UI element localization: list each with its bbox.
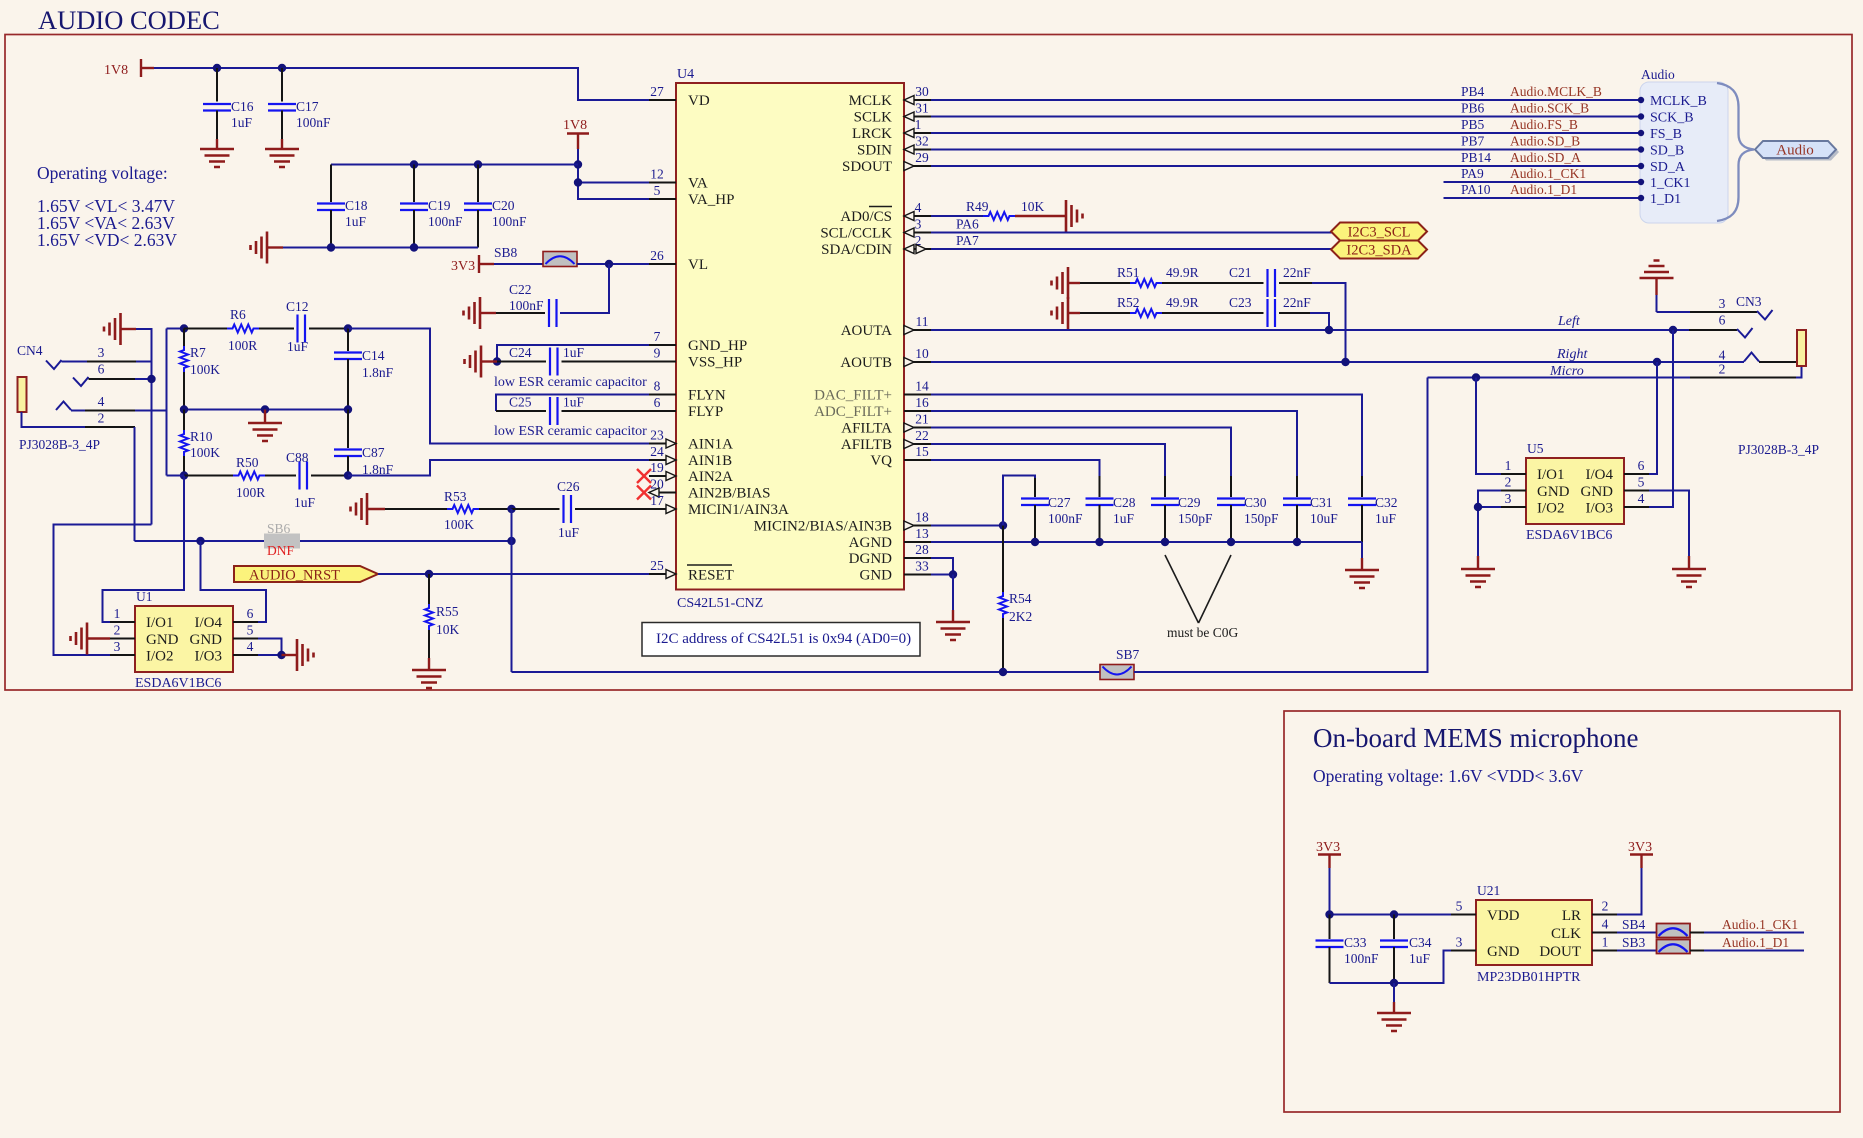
junction bbox=[574, 160, 582, 168]
junction bbox=[999, 521, 1007, 529]
svg-text:Audio.SD_A: Audio.SD_A bbox=[1510, 150, 1581, 165]
junction bbox=[344, 471, 352, 479]
svg-text:I/O2: I/O2 bbox=[146, 649, 174, 665]
wire SCL (PA6) bbox=[931, 232, 1332, 234]
svg-text:1: 1 bbox=[114, 606, 121, 621]
svg-text:100nF: 100nF bbox=[492, 214, 527, 229]
svg-text:1_D1: 1_D1 bbox=[1650, 192, 1681, 207]
svg-text:3V3: 3V3 bbox=[1628, 840, 1652, 855]
svg-text:RESET: RESET bbox=[688, 568, 734, 584]
junction bbox=[1390, 979, 1398, 987]
svg-text:GND: GND bbox=[1581, 484, 1614, 500]
svg-text:2: 2 bbox=[1602, 899, 1609, 914]
svg-text:I/O3: I/O3 bbox=[1586, 501, 1614, 517]
port AUDIO_NRST bbox=[234, 566, 378, 584]
wire U5 pin1 to Micro bbox=[1476, 378, 1501, 475]
svg-text:GND_HP: GND_HP bbox=[688, 338, 747, 354]
wire MCLK (PB4) bbox=[931, 99, 1640, 101]
junction bbox=[1390, 910, 1398, 918]
svg-text:19: 19 bbox=[650, 460, 664, 475]
svg-text:1.65V <VD< 2.63V: 1.65V <VD< 2.63V bbox=[37, 230, 177, 250]
wire R7/R10 node row bbox=[184, 409, 348, 411]
junction bbox=[1653, 358, 1661, 366]
svg-text:SDIN: SDIN bbox=[857, 143, 892, 159]
svg-text:4: 4 bbox=[247, 639, 254, 654]
ground (U5 right) bbox=[1672, 556, 1706, 587]
svg-text:AIN2B/BIAS: AIN2B/BIAS bbox=[688, 486, 771, 502]
junction bbox=[213, 64, 221, 72]
svg-text:GND: GND bbox=[190, 632, 223, 648]
svg-text:100nF: 100nF bbox=[296, 115, 331, 130]
wire U5 pin6 to Right bbox=[1649, 362, 1657, 474]
junction bbox=[507, 505, 515, 513]
svg-text:R54: R54 bbox=[1009, 591, 1032, 606]
wire U5 pin2/pin3 to ground bbox=[1478, 491, 1501, 557]
svg-text:Audio: Audio bbox=[1776, 143, 1814, 159]
svg-text:11: 11 bbox=[916, 314, 929, 329]
junction bbox=[574, 178, 582, 186]
svg-text:U4: U4 bbox=[677, 67, 694, 82]
jack plug symbol bbox=[18, 377, 27, 412]
wire GND rail bbox=[1330, 951, 1452, 984]
svg-text:GND: GND bbox=[860, 568, 893, 584]
svg-text:C25: C25 bbox=[509, 395, 532, 410]
capacitor C87 bbox=[334, 410, 394, 478]
capacitor C27 bbox=[1021, 478, 1083, 542]
capacitor C24 bbox=[497, 345, 649, 376]
junction bbox=[1095, 538, 1103, 546]
capacitor C25 bbox=[496, 395, 649, 426]
svg-text:VD: VD bbox=[688, 93, 710, 109]
svg-text:PA6: PA6 bbox=[956, 217, 979, 232]
svg-text:VQ: VQ bbox=[870, 453, 892, 469]
wire SDIN (PB7) bbox=[931, 149, 1640, 151]
pin 1 bbox=[110, 621, 135, 623]
pin 2 wire from plug bbox=[22, 412, 86, 427]
svg-text:U5: U5 bbox=[1527, 441, 1544, 456]
solder bridge SB6 (DNF) bbox=[264, 521, 300, 558]
svg-text:R6: R6 bbox=[230, 307, 246, 322]
svg-text:I/O2: I/O2 bbox=[1537, 501, 1565, 517]
resistor R7 bbox=[180, 329, 220, 410]
svg-text:2: 2 bbox=[1505, 475, 1512, 490]
svg-text:16: 16 bbox=[915, 395, 929, 410]
ground (R53, sideways) bbox=[351, 493, 386, 525]
svg-text:5: 5 bbox=[654, 183, 661, 198]
svg-text:SCLK: SCLK bbox=[854, 110, 893, 126]
svg-text:C23: C23 bbox=[1229, 295, 1252, 310]
capacitor C17 bbox=[268, 68, 331, 139]
svg-text:100R: 100R bbox=[228, 338, 257, 353]
svg-text:Operating voltage: 1.6V <VDD<: Operating voltage: 1.6V <VDD< 3.6V bbox=[1313, 766, 1584, 786]
wire AIN1B to pin 24 bbox=[348, 460, 649, 476]
svg-text:6: 6 bbox=[654, 395, 661, 410]
pin 4 bbox=[233, 654, 258, 656]
junction bbox=[147, 375, 155, 383]
svg-text:LR: LR bbox=[1562, 908, 1581, 924]
wire VL pin 26 bbox=[577, 263, 649, 265]
wire SB6 to MICIN1 node bbox=[300, 540, 512, 542]
wire LRCK (PB5) bbox=[931, 132, 1640, 134]
svg-text:DGND: DGND bbox=[849, 551, 892, 567]
ground (MEMS) bbox=[1377, 1002, 1411, 1031]
svg-text:2: 2 bbox=[114, 623, 121, 638]
svg-text:PA10: PA10 bbox=[1461, 182, 1491, 197]
svg-text:1: 1 bbox=[1602, 935, 1609, 950]
junction bbox=[196, 537, 204, 545]
connector CN3 audio jack bbox=[1657, 294, 1820, 457]
svg-text:2: 2 bbox=[1719, 362, 1726, 377]
port I2C3_SDA bbox=[1331, 241, 1427, 259]
svg-text:150pF: 150pF bbox=[1178, 511, 1213, 526]
junction bbox=[1031, 538, 1039, 546]
svg-text:4: 4 bbox=[1638, 491, 1645, 506]
svg-text:VA_HP: VA_HP bbox=[688, 192, 734, 208]
svg-text:12: 12 bbox=[650, 167, 664, 182]
svg-text:R51: R51 bbox=[1117, 265, 1140, 280]
svg-text:100nF: 100nF bbox=[428, 214, 463, 229]
pin 3 bbox=[1657, 311, 1691, 313]
svg-text:100nF: 100nF bbox=[1344, 951, 1379, 966]
wire U1 I/O4 riser bbox=[201, 541, 267, 622]
svg-text:R49: R49 bbox=[966, 199, 989, 214]
ground (AGND) bbox=[1345, 558, 1379, 588]
svg-text:AIN1B: AIN1B bbox=[688, 453, 732, 469]
svg-text:3: 3 bbox=[915, 217, 922, 232]
junction bbox=[1227, 538, 1235, 546]
svg-text:AUDIO CODEC: AUDIO CODEC bbox=[38, 5, 220, 35]
svg-text:5: 5 bbox=[1456, 899, 1463, 914]
svg-text:C30: C30 bbox=[1244, 495, 1267, 510]
wire GND pin 33 bbox=[931, 574, 953, 576]
ground (CN3, flipped) bbox=[1640, 261, 1674, 313]
svg-text:PA9: PA9 bbox=[1461, 166, 1484, 181]
svg-text:C19: C19 bbox=[428, 198, 451, 213]
U4 left pin names bbox=[687, 93, 789, 584]
svg-text:SD_A: SD_A bbox=[1650, 160, 1686, 175]
resistor R55 bbox=[425, 574, 460, 658]
wire 1V8 to VA pins bbox=[577, 149, 579, 183]
svg-text:100K: 100K bbox=[190, 362, 220, 377]
junction bbox=[493, 357, 501, 365]
svg-text:1uF: 1uF bbox=[1113, 511, 1135, 526]
svg-text:low ESR ceramic capacitor: low ESR ceramic capacitor bbox=[494, 424, 647, 439]
no-connect X pin 20 bbox=[637, 486, 651, 500]
U4 left pin stubs and numbers bbox=[649, 84, 676, 579]
junction bbox=[949, 570, 957, 578]
MEMS microphone section border bbox=[1284, 711, 1840, 1112]
svg-text:C87: C87 bbox=[362, 445, 385, 460]
svg-text:Right: Right bbox=[1556, 347, 1588, 362]
svg-text:Audio.MCLK_B: Audio.MCLK_B bbox=[1510, 84, 1602, 99]
junction bbox=[180, 405, 188, 413]
svg-text:LRCK: LRCK bbox=[852, 126, 892, 142]
wire to ground bbox=[1393, 983, 1395, 1002]
svg-text:PB14: PB14 bbox=[1461, 150, 1491, 165]
svg-text:7: 7 bbox=[654, 329, 661, 344]
svg-text:Left: Left bbox=[1557, 314, 1581, 329]
svg-text:R50: R50 bbox=[236, 455, 259, 470]
svg-text:AIN2A: AIN2A bbox=[688, 469, 733, 485]
resistor R52 bbox=[1080, 295, 1264, 317]
svg-text:GND: GND bbox=[146, 632, 179, 648]
wire AGND to ground bbox=[1361, 542, 1363, 558]
svg-text:Audio.1_D1: Audio.1_D1 bbox=[1722, 935, 1789, 950]
wire AFILTA to C30 bbox=[931, 428, 1231, 477]
pin 6 bbox=[233, 621, 258, 623]
wire Micro row bbox=[1428, 377, 1691, 379]
svg-text:R53: R53 bbox=[444, 489, 467, 504]
svg-text:1uF: 1uF bbox=[563, 345, 585, 360]
svg-text:I2C3_SCL: I2C3_SCL bbox=[1348, 225, 1411, 241]
wire Micro tip / SB6 row bbox=[135, 540, 265, 542]
svg-text:MCLK_B: MCLK_B bbox=[1650, 94, 1707, 109]
svg-text:ADC_FILT+: ADC_FILT+ bbox=[814, 404, 892, 420]
svg-text:SB8: SB8 bbox=[494, 245, 518, 260]
wire AIN1B net to U1 I/O1 bbox=[103, 476, 185, 623]
resistor R53 bbox=[385, 489, 512, 532]
wire 1_CK1 (PA9) bbox=[1444, 181, 1641, 183]
ground (C22, sideways) bbox=[464, 297, 497, 329]
power port 3V3 (VL) bbox=[451, 255, 494, 274]
svg-text:AOUTA: AOUTA bbox=[841, 323, 892, 339]
ground (C16) bbox=[200, 139, 234, 167]
wire FLYN pin 8 loop bbox=[496, 395, 649, 412]
wire CLK out bbox=[1690, 932, 1704, 934]
wire AUDIO_NRST to pin 25 bbox=[378, 573, 649, 575]
svg-text:C27: C27 bbox=[1048, 495, 1071, 510]
svg-text:GND: GND bbox=[1537, 484, 1570, 500]
pin 3 contact bbox=[46, 360, 62, 369]
svg-text:30: 30 bbox=[915, 84, 929, 99]
resistor R49 bbox=[931, 199, 1045, 220]
svg-text:8: 8 bbox=[654, 379, 661, 394]
wire GND_HP pin 7 loop bbox=[497, 345, 649, 362]
svg-text:100nF: 100nF bbox=[1048, 511, 1083, 526]
svg-text:3: 3 bbox=[114, 639, 121, 654]
svg-text:AFILTB: AFILTB bbox=[841, 437, 892, 453]
svg-text:PB4: PB4 bbox=[1461, 84, 1485, 99]
ground (VA rail, sideways) bbox=[251, 232, 284, 264]
junction bbox=[425, 570, 433, 578]
svg-text:49.9R: 49.9R bbox=[1166, 295, 1199, 310]
wire 1_D1 (PA10) bbox=[1444, 197, 1641, 199]
wire MICIN2 pin 18 bbox=[931, 525, 1003, 527]
svg-text:CN4: CN4 bbox=[17, 343, 43, 358]
svg-text:1_CK1: 1_CK1 bbox=[1650, 176, 1690, 191]
wire micro bottom run bbox=[512, 671, 1101, 673]
junction bbox=[1161, 538, 1169, 546]
junction bbox=[1669, 326, 1677, 334]
svg-text:C32: C32 bbox=[1375, 495, 1398, 510]
junction bbox=[344, 324, 352, 332]
svg-text:SB3: SB3 bbox=[1622, 935, 1646, 950]
svg-text:32: 32 bbox=[915, 134, 929, 149]
svg-text:FS_B: FS_B bbox=[1650, 127, 1682, 142]
svg-text:22nF: 22nF bbox=[1283, 265, 1311, 280]
svg-text:1uF: 1uF bbox=[558, 525, 580, 540]
connector CN4 audio jack bbox=[17, 343, 167, 452]
U4 right pin stubs and numbers bbox=[904, 84, 931, 575]
note must be C0G bbox=[1165, 555, 1239, 640]
resistor R54 bbox=[999, 526, 1032, 673]
svg-text:VDD: VDD bbox=[1487, 908, 1520, 924]
svg-text:49.9R: 49.9R bbox=[1166, 265, 1199, 280]
pin 6 contact bbox=[73, 377, 89, 386]
wire VA decoupling rail bbox=[331, 164, 578, 166]
svg-text:15: 15 bbox=[915, 444, 929, 459]
power port 3V3 (U21 LR) bbox=[1617, 840, 1653, 915]
svg-text:low ESR ceramic capacitor: low ESR ceramic capacitor bbox=[494, 375, 647, 390]
junction bbox=[999, 668, 1007, 676]
svg-text:4: 4 bbox=[1719, 348, 1726, 363]
power port 3V3 (C33) bbox=[1316, 840, 1341, 915]
svg-text:C88: C88 bbox=[286, 450, 309, 465]
ground (U1 pin2, sideways) bbox=[71, 623, 111, 655]
svg-text:3: 3 bbox=[1456, 935, 1463, 950]
svg-text:SB4: SB4 bbox=[1622, 917, 1646, 932]
svg-text:PB6: PB6 bbox=[1461, 101, 1485, 116]
IC U4 CS42L51-CNZ bbox=[676, 67, 904, 611]
svg-text:CLK: CLK bbox=[1551, 926, 1581, 942]
svg-text:Audio.FS_B: Audio.FS_B bbox=[1510, 117, 1578, 132]
svg-text:AD0/CS: AD0/CS bbox=[840, 209, 892, 225]
pin 5 bbox=[233, 638, 258, 640]
svg-text:1uF: 1uF bbox=[563, 395, 585, 410]
svg-text:1: 1 bbox=[1505, 458, 1512, 473]
wire VDD rail bbox=[1330, 914, 1452, 916]
plug bbox=[1797, 330, 1806, 366]
svg-text:9: 9 bbox=[654, 346, 661, 361]
capacitor C16 bbox=[203, 68, 254, 139]
junction bbox=[1325, 910, 1333, 918]
junction bbox=[180, 471, 188, 479]
capacitor C31 bbox=[1283, 476, 1338, 542]
resistor R50 bbox=[167, 455, 297, 500]
ground (CN4 sleeve, sideways) bbox=[104, 313, 136, 345]
ground (C24, sideways) bbox=[465, 346, 498, 378]
capacitor C33 bbox=[1316, 915, 1380, 984]
ground (DGND) bbox=[936, 610, 970, 640]
capacitor C21 bbox=[1229, 265, 1312, 297]
svg-text:10: 10 bbox=[915, 346, 929, 361]
ground (U1 pin4, sideways right) bbox=[282, 639, 314, 671]
svg-text:Audio: Audio bbox=[1641, 67, 1675, 82]
svg-text:C18: C18 bbox=[345, 198, 368, 213]
svg-text:VL: VL bbox=[688, 257, 708, 273]
svg-text:C20: C20 bbox=[492, 198, 515, 213]
svg-text:10K: 10K bbox=[436, 622, 460, 637]
port Audio bbox=[1755, 141, 1839, 161]
svg-text:U1: U1 bbox=[136, 589, 153, 604]
solder bridge SB3 bbox=[1617, 935, 1690, 954]
capacitor C14 bbox=[334, 329, 394, 410]
capacitor C30 bbox=[1217, 476, 1279, 542]
svg-text:R52: R52 bbox=[1117, 295, 1140, 310]
ground (C17) bbox=[265, 139, 299, 167]
svg-text:C12: C12 bbox=[286, 299, 309, 314]
svg-text:AOUTB: AOUTB bbox=[840, 355, 892, 371]
svg-text:MICIN2/BIAS/AIN3B: MICIN2/BIAS/AIN3B bbox=[754, 519, 892, 535]
svg-text:3V3: 3V3 bbox=[1316, 840, 1340, 855]
wire MICIN1 node riser bbox=[511, 509, 513, 672]
svg-text:3V3: 3V3 bbox=[451, 259, 475, 274]
svg-text:3: 3 bbox=[98, 345, 105, 360]
junction bbox=[410, 243, 418, 251]
svg-text:C29: C29 bbox=[1178, 495, 1201, 510]
svg-text:5: 5 bbox=[1638, 475, 1645, 490]
power port I2C3_SCL bbox=[1331, 223, 1427, 241]
junction bbox=[278, 64, 286, 72]
wire VL to C22 bbox=[560, 264, 609, 313]
svg-text:6: 6 bbox=[247, 606, 254, 621]
svg-text:21: 21 bbox=[915, 412, 929, 427]
svg-text:must be C0G: must be C0G bbox=[1167, 625, 1239, 640]
capacitor C34 bbox=[1380, 915, 1432, 984]
wire CN4 pin2 riser bbox=[134, 427, 136, 541]
svg-text:10uF: 10uF bbox=[1310, 511, 1338, 526]
capacitor C28 bbox=[1086, 476, 1136, 542]
junction bbox=[1474, 503, 1482, 511]
solder bridge SB8 bbox=[494, 245, 577, 267]
svg-text:C16: C16 bbox=[231, 99, 254, 114]
ground (U5 left) bbox=[1461, 556, 1495, 587]
wire AOUTB (Right) bbox=[931, 361, 1744, 363]
svg-text:AUDIO_NRST: AUDIO_NRST bbox=[249, 568, 340, 584]
svg-text:4: 4 bbox=[915, 200, 922, 215]
svg-text:R55: R55 bbox=[436, 604, 459, 619]
junction bbox=[277, 651, 285, 659]
svg-text:ESDA6V1BC6: ESDA6V1BC6 bbox=[135, 676, 221, 691]
svg-text:27: 27 bbox=[650, 84, 664, 99]
resistor R10 bbox=[180, 410, 220, 476]
ESD protection U1 bbox=[110, 589, 258, 691]
wire AIN1B node riser bbox=[166, 329, 168, 476]
capacitor C18 bbox=[317, 165, 368, 248]
svg-text:FLYN: FLYN bbox=[688, 388, 726, 404]
U4 right pin names bbox=[754, 93, 893, 584]
capacitor C29 bbox=[1151, 476, 1213, 542]
junction bbox=[410, 160, 418, 168]
note operating voltage bbox=[37, 163, 177, 250]
svg-text:C34: C34 bbox=[1409, 935, 1432, 950]
wire ADC_FILT+ to C31 bbox=[931, 411, 1297, 476]
svg-text:14: 14 bbox=[915, 379, 929, 394]
wire AIN1A to pin 23 bbox=[348, 329, 649, 444]
ground (R52, sideways) bbox=[1052, 297, 1081, 329]
svg-text:5: 5 bbox=[247, 623, 254, 638]
junction bbox=[474, 160, 482, 168]
wire ground net to U1 I/O2 bbox=[54, 525, 152, 656]
svg-text:1V8: 1V8 bbox=[104, 63, 128, 78]
capacitor C12 bbox=[286, 299, 348, 354]
svg-text:100K: 100K bbox=[444, 517, 474, 532]
pin 4 contact bbox=[56, 402, 71, 411]
svg-text:PJ3028B-3_4P: PJ3028B-3_4P bbox=[1738, 442, 1819, 457]
svg-text:C33: C33 bbox=[1344, 935, 1367, 950]
svg-text:6: 6 bbox=[1719, 313, 1726, 328]
svg-text:I2C address of CS42L51 is 0x94: I2C address of CS42L51 is 0x94 (AD0=0) bbox=[656, 631, 911, 647]
svg-text:1uF: 1uF bbox=[287, 339, 309, 354]
ESD protection U5 bbox=[1501, 441, 1649, 543]
svg-text:2K2: 2K2 bbox=[1009, 609, 1032, 624]
svg-text:3: 3 bbox=[1719, 296, 1726, 311]
svg-text:MICIN1/AIN3A: MICIN1/AIN3A bbox=[688, 502, 789, 518]
net labels port pins bbox=[1461, 84, 1602, 197]
junction bbox=[344, 405, 352, 413]
svg-text:13: 13 bbox=[915, 526, 929, 541]
svg-text:Audio.1_D1: Audio.1_D1 bbox=[1510, 182, 1577, 197]
